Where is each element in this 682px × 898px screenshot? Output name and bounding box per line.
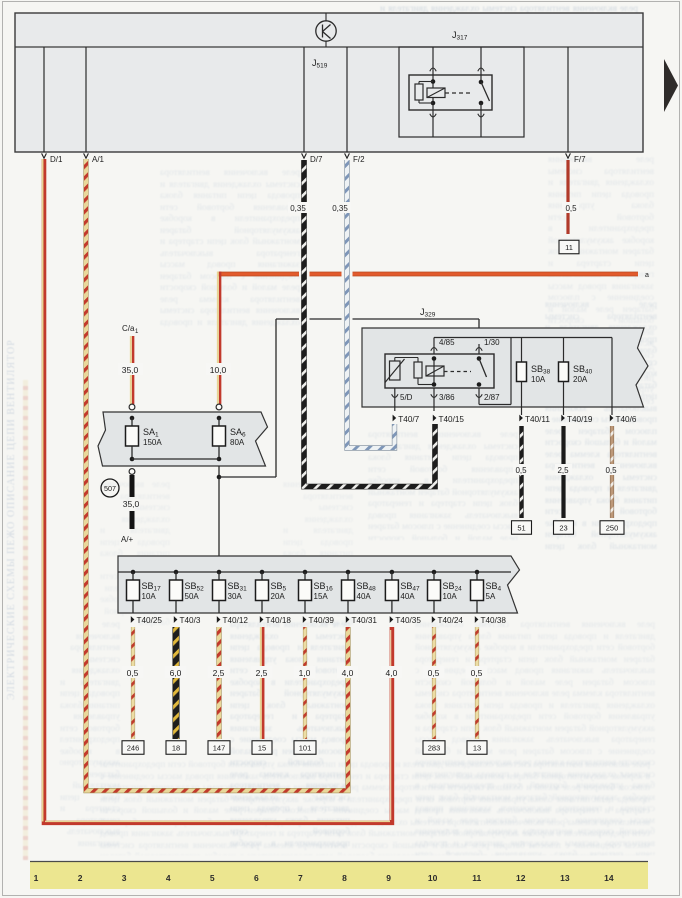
wire A/+ 35,0 (black) <box>129 469 135 529</box>
relay box J317 outline <box>399 47 524 137</box>
wire F/2 (bl/ws 0.35) loop to T40/7 <box>347 160 395 448</box>
connector T40/38 <box>475 616 479 623</box>
wire T40/3 (6,0) <box>173 627 180 739</box>
fuse SB4 5A <box>471 570 484 613</box>
svg-text:18: 18 <box>172 744 180 753</box>
wire D/7 (sw/ws 0.35) loop to T40/15 <box>304 160 435 487</box>
connector T40/39 <box>303 616 307 623</box>
connector box 18 <box>166 741 186 755</box>
connector box 283 <box>423 741 445 755</box>
pin 4/85 <box>431 338 455 355</box>
svg-text:a: a <box>645 272 649 279</box>
svg-text:0,5: 0,5 <box>471 668 483 678</box>
wire T40/25 (0,5) <box>131 627 135 739</box>
svg-text:10A: 10A <box>142 592 157 601</box>
connector box 147 <box>208 741 230 755</box>
connector box 101 <box>294 741 316 755</box>
svg-text:T40/19: T40/19 <box>567 415 593 424</box>
svg-text:5A: 5A <box>486 592 496 601</box>
svg-text:51: 51 <box>517 524 525 533</box>
svg-text:0,5: 0,5 <box>605 466 617 475</box>
relay J329 coil <box>426 356 444 387</box>
pin line D/7 <box>303 47 305 152</box>
svg-text:T40/7: T40/7 <box>398 415 419 424</box>
fuse SA6 80A <box>213 416 226 462</box>
relay J317 resistor <box>415 82 433 104</box>
SA fuse holder box <box>98 412 268 466</box>
svg-text:147: 147 <box>213 744 226 753</box>
svg-text:T40/38: T40/38 <box>481 616 507 625</box>
svg-text:1/30: 1/30 <box>484 338 500 347</box>
svg-text:1: 1 <box>135 329 139 335</box>
fuse SB40 20A <box>559 338 569 416</box>
svg-text:13: 13 <box>473 744 481 753</box>
fuse SB31 30A <box>213 570 226 613</box>
connector T40/18 <box>260 616 264 623</box>
svg-text:40A: 40A <box>357 592 372 601</box>
svg-text:30A: 30A <box>228 592 243 601</box>
connector T40/25 <box>131 616 135 623</box>
lower fuse holder band <box>118 556 520 613</box>
relay J329 switch contact <box>477 356 487 387</box>
svg-text:4: 4 <box>166 873 171 883</box>
terminal D/7 <box>302 153 307 158</box>
svg-text:4/85: 4/85 <box>439 338 455 347</box>
svg-text:T40/15: T40/15 <box>439 415 465 424</box>
pin 5/D <box>392 388 413 411</box>
svg-text:283: 283 <box>428 744 441 753</box>
orange bus wire (30) with label a <box>217 272 299 277</box>
svg-text:13: 13 <box>560 873 570 883</box>
wire T40/18 (2,5) <box>261 627 263 739</box>
svg-text:2/87: 2/87 <box>484 393 500 402</box>
svg-text:10: 10 <box>428 873 438 883</box>
wire T40/24 (0,5) <box>432 627 436 739</box>
relay J317 switch contact (right pin) <box>478 47 490 137</box>
svg-text:1: 1 <box>34 873 39 883</box>
continuation arrow right margin <box>664 59 678 112</box>
svg-text:20A: 20A <box>271 592 286 601</box>
wire gauge 0,5 <box>466 666 488 678</box>
fuse SB17 10A <box>127 570 140 613</box>
wire J329 1/30 leader <box>276 319 479 477</box>
relay J317 coil <box>427 88 445 98</box>
wire D/1 (ge/rt) to T40/35 : outer bottom loop <box>43 159 392 823</box>
svg-text:80A: 80A <box>230 438 245 447</box>
svg-text:20A: 20A <box>573 375 588 384</box>
wire gauge 4,0 at T40/31 <box>337 666 358 678</box>
svg-text:T40/18: T40/18 <box>266 616 292 625</box>
wire gauge 2,5 <box>251 666 273 678</box>
svg-text:5/D: 5/D <box>400 393 413 402</box>
svg-text:23: 23 <box>559 524 567 533</box>
svg-text:101: 101 <box>299 744 312 753</box>
wire gauge 6,0 <box>165 666 187 678</box>
svg-text:T40/31: T40/31 <box>352 616 378 625</box>
svg-text:9: 9 <box>386 873 391 883</box>
wire gauge 0,35 (D/7) <box>288 202 309 213</box>
wire T40/12 (2,5) <box>216 627 221 739</box>
fuse SB5 20A <box>256 570 269 613</box>
svg-text:14: 14 <box>604 873 614 883</box>
svg-text:15: 15 <box>258 744 266 753</box>
svg-text:A/1: A/1 <box>92 155 105 164</box>
wire 10,0 (ge/rt) from bus to SA6 <box>216 272 222 410</box>
svg-text:246: 246 <box>127 744 140 753</box>
relay J329 dashed link <box>444 371 471 373</box>
svg-text:T40/6: T40/6 <box>616 415 637 424</box>
pin line A/1 <box>85 47 87 152</box>
pin 1/30 <box>476 338 500 354</box>
connector box 246 <box>122 741 144 755</box>
wire C/a1 35,0 (ge/rt) <box>122 324 139 410</box>
svg-text:T40/12: T40/12 <box>223 616 249 625</box>
wire T40/38 (0,5) <box>475 627 479 739</box>
svg-text:2: 2 <box>78 873 83 883</box>
wire gauge 2,5 <box>208 666 230 678</box>
svg-text:T40/24: T40/24 <box>438 616 464 625</box>
fuse row bus <box>118 571 511 573</box>
connector T40/31 <box>346 616 350 623</box>
wire gauge 0,5 <box>423 666 445 678</box>
svg-text:35,0: 35,0 <box>122 365 139 375</box>
relay plate J329 <box>362 328 648 407</box>
pin 3/86 <box>431 388 455 411</box>
pin line F/2 <box>346 47 348 152</box>
connector T40/7 <box>393 415 397 422</box>
relay J317 actuating dashed link <box>445 92 473 94</box>
svg-text:2,5: 2,5 <box>557 466 569 475</box>
wire gauge 0,5 <box>122 666 144 678</box>
pin line D/1 <box>43 47 45 152</box>
connector box 250 <box>600 521 624 535</box>
svg-text:T40/39: T40/39 <box>309 616 335 625</box>
svg-text:11: 11 <box>565 243 573 252</box>
relay J317 coil pin (left) <box>430 47 436 137</box>
svg-text:F/2: F/2 <box>353 155 365 164</box>
fuse SB48 40A <box>342 570 355 613</box>
control unit band J519 area <box>15 13 643 152</box>
wire T40/39 (1,0) <box>303 627 307 739</box>
connector box 13 <box>467 741 487 755</box>
band divider line <box>15 46 643 48</box>
svg-text:C/a: C/a <box>122 324 135 333</box>
wire gauge 0,5 (F/7) <box>562 202 579 213</box>
SA internal bus <box>132 458 219 460</box>
svg-text:6: 6 <box>254 873 259 883</box>
svg-text:35,0: 35,0 <box>123 499 140 509</box>
svg-text:40A: 40A <box>400 592 415 601</box>
svg-text:T40/11: T40/11 <box>525 415 550 424</box>
svg-text:5: 5 <box>210 873 215 883</box>
terminal F/2 <box>345 153 350 158</box>
svg-text:10A: 10A <box>443 592 458 601</box>
connector T40/12 <box>217 616 221 623</box>
svg-text:15A: 15A <box>314 592 329 601</box>
svg-text:50A: 50A <box>185 592 200 601</box>
svg-text:0,5: 0,5 <box>515 466 527 475</box>
thermal element (5/D) <box>385 358 418 383</box>
wire T40/11 (sw/ws 0.5) <box>519 426 523 518</box>
connector T40/15 <box>433 415 437 422</box>
svg-text:250: 250 <box>606 524 619 533</box>
svg-text:T40/25: T40/25 <box>137 616 163 625</box>
svg-text:4,0: 4,0 <box>342 668 354 678</box>
relay J329 body <box>385 354 494 388</box>
svg-text:T40/3: T40/3 <box>180 616 201 625</box>
wire gauge 1,0 <box>294 666 316 678</box>
connector T40/24 <box>432 616 436 623</box>
connector T40/35 <box>390 616 394 623</box>
connector T40/3 <box>174 616 178 623</box>
svg-text:0,5: 0,5 <box>428 668 440 678</box>
svg-text:F/7: F/7 <box>574 155 586 164</box>
svg-text:7: 7 <box>298 873 303 883</box>
connector T40/11 <box>519 415 523 422</box>
fuse SB24 10A <box>428 570 441 613</box>
svg-text:11: 11 <box>472 873 481 883</box>
svg-text:D/7: D/7 <box>310 155 323 164</box>
svg-text:0,35: 0,35 <box>332 204 348 213</box>
terminal 507 circle <box>101 479 119 497</box>
wire gauge 0,35 (F/2) <box>330 202 351 213</box>
terminal D/1 <box>42 153 47 158</box>
terminal A/1 <box>84 153 89 158</box>
svg-text:6,0: 6,0 <box>170 668 182 678</box>
svg-text:T40/35: T40/35 <box>395 616 421 625</box>
fuse SA1 150A <box>126 416 139 462</box>
connector box 23 <box>554 521 574 535</box>
wire T40/19 (sw 2.5) <box>561 426 565 518</box>
svg-text:507: 507 <box>104 484 116 493</box>
svg-text:2,5: 2,5 <box>213 668 225 678</box>
svg-text:0,5: 0,5 <box>565 204 577 213</box>
svg-text:0,5: 0,5 <box>127 668 139 678</box>
pin line F/7 <box>567 47 569 152</box>
svg-text:150A: 150A <box>143 438 162 447</box>
svg-text:10A: 10A <box>531 375 546 384</box>
wire F/7 (0.5) <box>566 160 569 234</box>
wire A/1 (ge/rt stripes) to T40/31 : inner bottom loop <box>86 159 348 791</box>
current track band <box>30 862 648 889</box>
svg-text:4,0: 4,0 <box>385 668 397 678</box>
fuse SB38 10A <box>517 338 527 416</box>
battery symbol (circle with K) <box>316 13 336 47</box>
svg-text:10,0: 10,0 <box>210 365 227 375</box>
connector T40/6 <box>610 415 614 422</box>
J329 internal bus from 4/85 to fuses and T40/6 <box>434 338 612 416</box>
connector box 51 <box>512 521 532 535</box>
pin 2/87 <box>476 388 500 405</box>
svg-text:3: 3 <box>122 873 127 883</box>
node SA6 output / junction to J329 feed <box>217 466 276 572</box>
connector T40/19 <box>561 415 565 422</box>
wire T40/6 (br/ws 0.5) <box>610 426 614 518</box>
fuse SB52 50A <box>170 570 183 613</box>
svg-text:0,35: 0,35 <box>290 204 306 213</box>
svg-text:A/+: A/+ <box>121 535 134 544</box>
fuse SB47 40A <box>385 570 398 613</box>
terminal F/7 <box>566 153 571 158</box>
fuse SB16 15A <box>299 570 312 613</box>
svg-text:8: 8 <box>342 873 347 883</box>
connector box 15 <box>252 741 272 755</box>
wire gauge 4,0 at T40/35 <box>381 666 402 678</box>
relay J317 body <box>409 75 492 110</box>
connector box 11 <box>559 240 579 254</box>
svg-text:3/86: 3/86 <box>439 393 455 402</box>
relay J329 resistor <box>414 362 434 385</box>
svg-text:1,0: 1,0 <box>299 668 311 678</box>
svg-text:12: 12 <box>516 873 526 883</box>
svg-text:D/1: D/1 <box>50 155 63 164</box>
svg-text:2,5: 2,5 <box>256 668 268 678</box>
svg-text:J329: J329 <box>420 307 436 319</box>
